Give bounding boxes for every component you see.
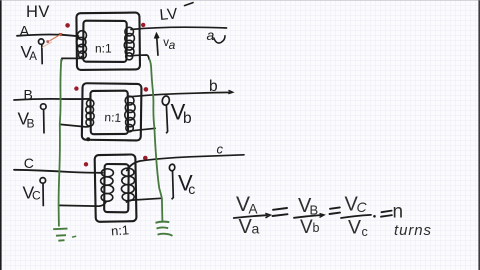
green wires group	[53, 59, 172, 241]
svg-text:b: b	[183, 110, 192, 127]
svg-text:b: b	[209, 78, 218, 95]
svg-text:n:1: n:1	[111, 222, 130, 238]
svg-text:B: B	[27, 117, 35, 131]
wire T1 primary bottom to neutral	[61, 57, 81, 62]
svg-text:LV: LV	[159, 5, 179, 24]
arrowhead of b line	[228, 90, 232, 93]
svg-text:a: a	[252, 221, 260, 237]
ground LV neutral	[156, 222, 173, 236]
wire HV neutral (green, left)	[59, 59, 62, 227]
red annotation arrow at node A	[42, 33, 62, 47]
wire phase B line	[14, 99, 91, 100]
polarity dot T1 primary	[65, 23, 70, 28]
polarity dot T3 secondary	[143, 156, 148, 161]
transformer T1 outer core	[76, 13, 140, 70]
wire T2 primary bottom to neutral	[60, 124, 90, 126]
secondary winding T2	[125, 96, 135, 132]
overbar tick after LV	[185, 3, 194, 6]
svg-text:HV: HV	[26, 3, 50, 21]
wire phase C line	[14, 170, 103, 173]
equals sign 2	[330, 207, 341, 214]
arrow V_b (up)	[161, 95, 170, 133]
svg-text:a: a	[207, 27, 215, 43]
wire T3 primary bottom to neutral	[59, 202, 106, 206]
primary winding T2	[86, 100, 94, 126]
polarity dot T2 primary	[74, 86, 78, 90]
wire c line (T3 secondary to output c)	[127, 155, 244, 171]
svg-text:V: V	[239, 216, 253, 238]
top video edge line	[0, 0, 480, 1]
svg-text:n: n	[393, 202, 404, 223]
wire b line (T2 secondary to output b)	[129, 92, 232, 96]
polarity dot T1 secondary	[141, 23, 145, 27]
arrow V_a (up)	[155, 34, 159, 56]
primary winding T3	[101, 169, 114, 202]
wire a line (T1 secondary to output a)	[131, 27, 227, 29]
equals sign 3	[381, 211, 392, 217]
svg-text:V: V	[300, 217, 313, 238]
primary winding T1	[77, 31, 87, 59]
transformer T3 inner core	[104, 164, 129, 212]
transformer T1 inner core	[83, 21, 127, 62]
svg-text:b: b	[313, 221, 320, 235]
transformer T2 inner core	[90, 91, 128, 135]
arrow V_C (up)	[40, 178, 46, 207]
svg-text:c: c	[217, 142, 224, 157]
transformer T2 outer core	[82, 83, 142, 140]
svg-text:A: A	[29, 51, 37, 63]
equation group	[234, 193, 432, 239]
junction dot T2 corner	[86, 137, 90, 141]
arrow V_B (up)	[41, 104, 47, 134]
wire phase A line	[17, 34, 79, 36]
svg-text:A: A	[20, 24, 30, 40]
transformer T3 outer core	[95, 154, 137, 221]
svg-text:C: C	[32, 189, 41, 203]
secondary winding T1	[124, 27, 134, 60]
wire T2 secondary bottom to LV neutral	[130, 128, 155, 131]
equals sign 1	[273, 208, 288, 216]
svg-text:a: a	[169, 38, 176, 52]
svg-text:c: c	[362, 225, 368, 239]
polarity dot T3 primary	[84, 162, 88, 166]
left video edge bar	[0, 0, 2, 270]
wire LV neutral (green, right)	[149, 59, 162, 222]
secondary winding T3	[121, 168, 134, 201]
svg-text:n:1: n:1	[104, 110, 122, 125]
svg-text:C: C	[24, 155, 34, 171]
svg-text:V: V	[348, 217, 361, 239]
ground HV neutral	[53, 229, 76, 241]
polarity dot T2 secondary	[144, 87, 149, 92]
arrow V_c (up)	[169, 164, 175, 200]
svg-text:turns: turns	[394, 222, 432, 239]
wire T3 secondary bottom to LV neutral	[127, 198, 162, 202]
wire T1 secondary bottom to LV neutral	[131, 55, 149, 59]
right video edge bar	[478, 0, 480, 270]
svg-text:n:1: n:1	[95, 42, 112, 56]
tiny red dot near V_A arrow	[46, 40, 49, 43]
arrow V_A (up)	[39, 39, 44, 64]
svg-text:c: c	[188, 181, 195, 197]
svg-text:C: C	[357, 199, 368, 215]
svg-text:A: A	[249, 202, 258, 217]
